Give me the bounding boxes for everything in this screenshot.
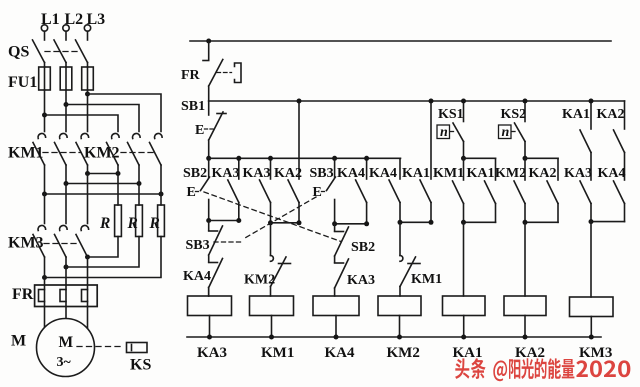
wire merge branch1: [209, 220, 239, 222]
wire shunt row3 A to R3 bottom: [45, 237, 162, 278]
wire phase3 KM3 feed: [87, 174, 89, 224]
wire L3 drop: [87, 31, 89, 40]
relay FR heater 2: [60, 285, 66, 307]
contactor KM1-KM2 link dashed left: [43, 152, 81, 154]
wire merge branch4: [400, 221, 431, 223]
node rail3 KA3a tap: [236, 156, 241, 161]
node rail1 FR tap: [206, 39, 211, 44]
fuse FU1 pole 2: [60, 63, 72, 91]
node bottom KA1: [461, 335, 466, 340]
node row3 right: [159, 192, 164, 197]
wire phase1 to FR: [44, 257, 46, 285]
contact KA3 seal fwd (NO): [228, 158, 239, 220]
contact KA3 (KM1 branch, NO): [260, 158, 271, 223]
wire phase1 KM3 feed: [44, 194, 46, 224]
wire rail 1: [190, 40, 611, 42]
button SB2 start fwd (NO): [201, 158, 210, 220]
contactor KM2 pole 1: [107, 133, 120, 165]
watermark glyph 光: [521, 358, 534, 379]
wire rail 3: [209, 157, 401, 159]
coil KM3: [570, 297, 614, 337]
watermark glyph 头: [455, 358, 469, 379]
wire phase2 KM3 feed: [65, 184, 67, 224]
contactor KM1 pole 2: [55, 133, 68, 165]
contact KM1 (KA1 branch, NO): [453, 158, 464, 222]
wire R3 top lead: [160, 194, 162, 205]
mechanical link SB2 dashed: [204, 192, 341, 242]
wire shunt row1 C to R1 bottom: [88, 237, 119, 258]
node row1 left: [85, 171, 90, 176]
contact KA2 (KM1 branch, NO from rail2): [288, 101, 299, 223]
node bottom KA4: [334, 335, 339, 340]
button SB3 interlock (NC): [209, 221, 223, 256]
watermark glyph 条: [471, 358, 486, 379]
node row2 right: [137, 181, 142, 186]
wire phase3 to FR: [87, 257, 89, 285]
fuse FU1 pole 1: [39, 63, 51, 91]
switch QS pole 3 blade: [76, 40, 88, 63]
wire cross row3 A to F: [45, 193, 162, 195]
wire phase3 fuse to KM1: [87, 90, 89, 132]
button SB1 stop (NC): [209, 101, 226, 158]
node shunt row3: [42, 275, 47, 280]
node row3 left: [42, 192, 47, 197]
node row1 right: [116, 171, 121, 176]
node bottom KA2: [523, 335, 528, 340]
wire motor to KS dashed: [77, 346, 124, 348]
button SB1 actuator: [195, 123, 213, 138]
terminal L3: [84, 11, 105, 31]
switch QS link dashed: [45, 51, 81, 53]
wire KM1 pole1 to cross row3: [44, 165, 46, 194]
contactor KM2 pole 2: [128, 133, 141, 165]
contact KA4 seal rev (NO): [356, 158, 367, 224]
node shunt row2: [64, 265, 69, 270]
wire rail 2: [209, 100, 625, 102]
wire merge branch5: [464, 221, 496, 223]
wire merge branch6: [525, 221, 558, 223]
contact KA1 (KM2 branch, NO from rail2): [420, 101, 431, 222]
contact KM2 (KA2 branch, NO): [514, 158, 525, 222]
speed contact KS2 (NO): [515, 101, 526, 158]
wire shunt row2 B to R2 bottom: [66, 237, 139, 268]
wire phase3 to KM2 pole3: [88, 94, 162, 132]
coil KA1: [443, 296, 486, 337]
node phase2 tee: [64, 102, 69, 107]
node row2 left: [64, 181, 69, 186]
wire KM2 pole1 to row1: [117, 165, 119, 174]
contact KA2 (KM3 branch, NO): [614, 101, 625, 180]
wire cross row2 B to E: [66, 183, 139, 185]
wire SB3 upper: [334, 158, 336, 177]
wire cross row1 C to D: [88, 173, 119, 175]
relay FR box: [35, 285, 98, 307]
contact KA3 (KM3 branch, NO): [580, 181, 591, 222]
watermark glyph 量: [562, 359, 575, 378]
wire KS2 jog: [525, 157, 558, 159]
wire merge branch2: [271, 222, 300, 224]
wire phase1 fuse to KM1: [44, 90, 46, 132]
node merge2 left: [268, 220, 273, 225]
speed KS1 n-box: [437, 125, 456, 140]
wire phase2 to FR: [65, 257, 67, 285]
contact KA4 (KM3 branch, NO): [614, 181, 625, 222]
speed relay KS box: [127, 343, 148, 353]
watermark glyph 2: [604, 360, 616, 377]
node merge4 right: [429, 220, 434, 225]
wire phase1 to KM2 pole1: [45, 115, 119, 132]
resistor R3: [149, 205, 165, 237]
button SB3 start rev (NO): [327, 177, 336, 224]
switch QS pole 1 blade: [33, 40, 45, 63]
wire KM1 pole2 to cross row2: [65, 165, 67, 184]
contactor KM1 pole 3: [76, 133, 89, 165]
contactor KM3 pole 1: [33, 225, 46, 257]
node rail3 KA4a tap: [364, 156, 369, 161]
wire branch6 to coil: [524, 222, 526, 296]
node rail2 KS1 tap: [461, 99, 466, 104]
wire motor lead 1: [44, 307, 46, 330]
contact KM2 interlock (NC): [271, 223, 291, 296]
watermark glyph 阳: [509, 359, 520, 379]
button SB2 interlock (NC): [335, 224, 349, 256]
node merge6: [523, 220, 528, 225]
terminal L2: [63, 11, 83, 31]
speed contact KS1 (NO): [453, 101, 464, 158]
relay FR heater 3: [82, 285, 88, 307]
contactor KM3 link dashed: [44, 243, 80, 245]
wire branch7 to coil: [590, 222, 592, 297]
wire L2 drop: [65, 31, 67, 40]
contact KA3 interlock (NC): [335, 256, 349, 296]
node rail2-rail3 junction: [206, 156, 211, 161]
watermark glyph 的: [535, 358, 547, 379]
speed KS2 n-box: [499, 125, 518, 140]
node bottom KM1: [269, 335, 274, 340]
node bottom KM3: [589, 335, 594, 340]
node KS1 bottom: [461, 156, 466, 161]
wire R1 top lead: [117, 174, 119, 206]
contactor KM1-KM2 link dashed right: [121, 152, 157, 154]
node merge3 right: [364, 221, 369, 226]
contact KA1 seal (KA1 branch, NO): [485, 158, 496, 222]
resistor R1: [99, 205, 121, 237]
button SB3 interlock dashes: [214, 241, 241, 243]
node merge7: [589, 219, 594, 224]
coil KM1: [250, 296, 294, 337]
contact KM1 interlock (NC): [400, 222, 420, 296]
node rail2 KA1a tap: [429, 99, 434, 104]
button SB3 actuator: [313, 185, 327, 200]
node phase3 tee: [85, 92, 90, 97]
watermark glyph @: [493, 361, 507, 382]
watermark glyph 0: [618, 360, 630, 377]
node bottom KA3: [207, 335, 212, 340]
node rail2 KA2a tap: [297, 99, 302, 104]
watermark glyph 0: [590, 360, 602, 377]
watermark glyph 2: [576, 360, 588, 377]
motor M circle: [37, 319, 95, 377]
node rail2 KA1c tap: [589, 99, 594, 104]
wire branch5 to coil: [463, 222, 465, 296]
wire merge branch7: [591, 221, 625, 223]
wire motor lead 2: [65, 307, 67, 319]
node bottom KM2: [397, 335, 402, 340]
node KS2 bottom: [523, 156, 528, 161]
wire KM2 pole3 to row3: [160, 165, 162, 194]
node merge1 left: [206, 218, 211, 223]
thermal contact FR (NC): [203, 41, 223, 101]
wire KM2 pole2 to row2: [138, 165, 140, 184]
node merge3 left: [332, 221, 337, 226]
coil KM2: [378, 296, 421, 337]
wire KM1 pole3 to cross row1: [87, 165, 89, 174]
node merge5: [461, 220, 466, 225]
node shunt row1: [85, 255, 90, 260]
thermal FR trip device: [217, 63, 241, 83]
wire R2 top lead: [138, 184, 140, 206]
node rail3 SB3 tap: [332, 156, 337, 161]
node merge2 right: [297, 220, 302, 225]
wire phase2 to KM2 pole2: [66, 105, 139, 132]
relay FR heater 1: [39, 285, 45, 307]
watermark glyph 能: [548, 358, 561, 379]
wire KS1 jog: [464, 157, 496, 159]
coil KA4: [313, 296, 359, 337]
wire bottom rail: [187, 336, 601, 338]
wire phase2 fuse to KM1: [65, 90, 67, 132]
fuse FU1 pole 3: [82, 63, 94, 91]
contactor KM3 pole 3: [76, 225, 89, 257]
node rail3 KA3b tap: [268, 156, 273, 161]
node merge4 left: [398, 220, 403, 225]
contact KA4 (KM2 branch, NO): [389, 158, 400, 222]
wire L1 drop: [44, 31, 46, 40]
node rail2 KS2 tap: [523, 99, 528, 104]
motor M inner text: [57, 334, 74, 370]
contact KA1 (KM3 branch, NO): [580, 101, 591, 180]
mechanical link SB3 dashed: [244, 197, 316, 239]
button SB2 actuator: [187, 185, 201, 200]
resistor R2: [127, 205, 143, 237]
wire merge branch3: [335, 223, 367, 225]
node phase1 tee: [42, 113, 47, 118]
contactor KM2 pole 3: [150, 133, 163, 165]
contact KA2 seal (KA2 branch, NO): [547, 158, 558, 222]
contactor KM3 pole 2: [55, 225, 68, 257]
coil KA3: [188, 288, 232, 338]
coil KA2: [504, 296, 546, 337]
wire motor lead 3: [87, 307, 89, 330]
node merge1 right: [236, 218, 241, 223]
contactor KM1 pole 1: [33, 133, 46, 165]
switch QS pole 2 blade: [54, 40, 66, 63]
terminal L1: [41, 11, 60, 31]
contact KA4 interlock (NC): [209, 255, 223, 296]
